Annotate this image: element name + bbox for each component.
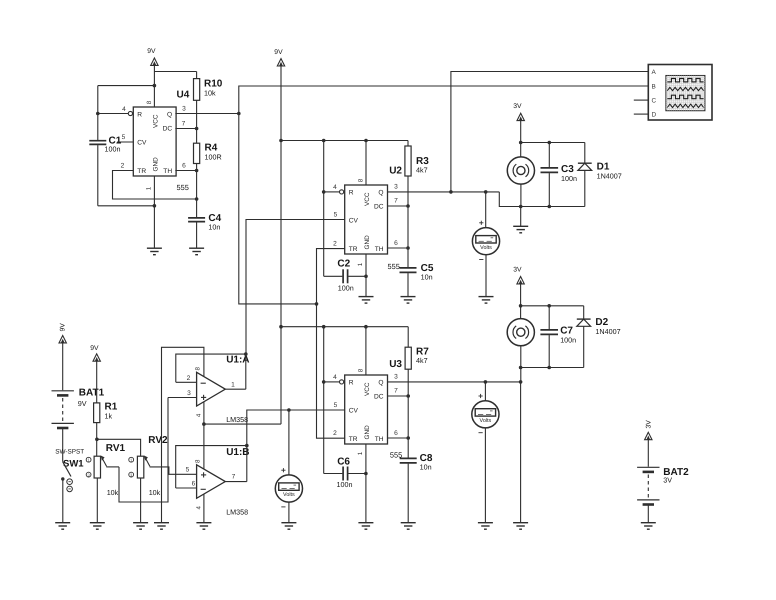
- node motor2 Q junction: [519, 380, 523, 384]
- svg-text:9V: 9V: [90, 345, 99, 352]
- ground voltmeter1: [479, 296, 494, 298]
- resistor R7: [405, 347, 411, 369]
- wire U1:B power pin8: [203, 424, 205, 469]
- svg-text:5: 5: [334, 402, 338, 409]
- wire U1:A pin2 input: [176, 381, 197, 383]
- svg-text:VCC: VCC: [364, 192, 371, 206]
- ground opamp A: [154, 522, 169, 524]
- diode D2 1N4007: [583, 306, 585, 319]
- svg-text:10n: 10n: [420, 463, 432, 472]
- svg-text:Volts: Volts: [283, 492, 295, 498]
- wire Q to motor1 rail: [499, 192, 585, 207]
- wire U4 CV stub: [117, 141, 133, 143]
- wire U2 TH pin6: [388, 247, 409, 249]
- svg-text:5: 5: [186, 467, 190, 474]
- svg-text:2: 2: [333, 241, 337, 248]
- svg-text:100n: 100n: [560, 336, 576, 345]
- svg-text:3V: 3V: [513, 267, 522, 274]
- svg-text:4k7: 4k7: [416, 166, 428, 175]
- svg-text:3: 3: [394, 184, 398, 191]
- svg-text:4k7: 4k7: [416, 356, 428, 365]
- svg-text:2: 2: [187, 375, 191, 382]
- svg-text:7: 7: [182, 121, 186, 128]
- svg-text:TH: TH: [375, 436, 384, 443]
- wire Q to scope B: [239, 86, 649, 114]
- wire to scope A: [451, 72, 648, 192]
- svg-text:4: 4: [333, 184, 337, 191]
- svg-text:1k: 1k: [105, 412, 113, 421]
- svg-text:1: 1: [357, 451, 364, 455]
- node opamp 9V junction: [202, 422, 206, 426]
- wire motor2 top rail: [521, 305, 584, 307]
- wire RV1 wiper to opamp A pin3: [119, 398, 168, 503]
- ground U4: [147, 247, 162, 249]
- wire scope input D stub: [634, 113, 649, 115]
- op U2 555 timer: [345, 185, 388, 254]
- svg-text:GND: GND: [153, 157, 160, 172]
- wire U4 TR loop: [113, 171, 197, 200]
- svg-text:6: 6: [394, 430, 398, 437]
- ground motor2: [513, 522, 528, 524]
- op-amp U1:B LM358: [197, 465, 226, 499]
- svg-text:4: 4: [122, 106, 126, 113]
- svg-text:TH: TH: [163, 168, 172, 175]
- wire motor2 to ground: [520, 382, 522, 523]
- svg-text:2: 2: [121, 163, 125, 170]
- wire U2 DC pin7: [388, 205, 409, 207]
- node R/VCC junction U4: [96, 112, 100, 116]
- capacitor C7: [548, 306, 550, 330]
- node motor1 bottom: [519, 205, 523, 209]
- battery BAT2: [637, 466, 659, 468]
- svg-text:GND: GND: [364, 235, 371, 250]
- wire U1:A power pin8 to ground: [162, 347, 204, 522]
- svg-text:2: 2: [333, 430, 337, 437]
- svg-text:RV2: RV2: [148, 435, 168, 446]
- node U1:B feedback junction: [245, 444, 249, 448]
- svg-text:8: 8: [358, 368, 365, 372]
- wire U1:A output pin1: [225, 388, 246, 390]
- svg-text:555: 555: [388, 262, 400, 271]
- scope trace C square wave: [667, 95, 703, 99]
- svg-text:RV1: RV1: [106, 443, 126, 454]
- wire U3 GND pin: [365, 444, 367, 523]
- svg-text:Volts: Volts: [480, 418, 492, 424]
- wire U2 GND pin: [365, 254, 367, 297]
- wire U2 output Q pin3: [388, 191, 500, 193]
- svg-text:8: 8: [358, 178, 365, 182]
- wire scope input C stub: [634, 99, 649, 101]
- wire U4 reset stub: [98, 113, 128, 115]
- svg-text:3V: 3V: [513, 103, 522, 110]
- ground C4: [189, 247, 204, 249]
- svg-text:TR: TR: [349, 436, 358, 443]
- svg-text:9V: 9V: [147, 48, 156, 55]
- svg-text:1: 1: [357, 262, 364, 266]
- svg-text:R: R: [349, 189, 354, 196]
- svg-text:TR: TR: [137, 168, 146, 175]
- wire U2 VCC pin: [365, 141, 367, 186]
- svg-text:8: 8: [146, 100, 153, 104]
- resistor R4: [194, 143, 200, 163]
- svg-text:LM358: LM358: [226, 415, 248, 424]
- node voltmeter2 branch: [484, 380, 488, 384]
- ground SW1: [55, 522, 70, 524]
- resistor R1: [94, 403, 100, 423]
- wire U2 CV pin5: [246, 220, 345, 355]
- node voltmeter3 branch: [287, 408, 291, 412]
- capacitor C1: [97, 114, 99, 141]
- wire U2 TR pin2: [317, 249, 345, 439]
- ground voltmeter3: [281, 522, 296, 524]
- svg-text:6: 6: [192, 481, 196, 488]
- wire 9V to opamp pin4: [204, 423, 281, 425]
- svg-text:4: 4: [333, 374, 337, 381]
- motor M1: [507, 157, 534, 184]
- ground U3: [358, 522, 373, 524]
- svg-text:1: 1: [231, 381, 235, 388]
- voltmeter VM3: [288, 410, 290, 475]
- battery BAT1: [52, 390, 74, 392]
- wire U4 DC pin7: [175, 128, 196, 130]
- svg-text:7: 7: [394, 388, 398, 395]
- svg-text:3: 3: [394, 374, 398, 381]
- wire motor1 top rail: [521, 142, 585, 144]
- svg-text:1: 1: [145, 186, 152, 190]
- svg-text:U2: U2: [389, 166, 402, 177]
- wire U3 output Q pin3: [388, 381, 521, 383]
- svg-text:8: 8: [195, 459, 202, 463]
- wire U4 GND pin: [153, 176, 155, 248]
- capacitor C4: [196, 199, 198, 217]
- svg-text:100n: 100n: [105, 145, 121, 154]
- svg-text:VCC: VCC: [364, 382, 371, 396]
- svg-text:100n: 100n: [338, 284, 354, 293]
- svg-text:6: 6: [394, 240, 398, 247]
- wire U4 output Q pin3: [175, 113, 239, 115]
- svg-text:4: 4: [196, 506, 203, 510]
- capacitor C8: [400, 457, 417, 459]
- svg-text:DC: DC: [374, 394, 384, 401]
- svg-text:U3: U3: [389, 359, 402, 370]
- svg-text:CV: CV: [349, 407, 359, 414]
- svg-text:10n: 10n: [208, 223, 220, 232]
- svg-text:Q: Q: [167, 111, 172, 118]
- capacitor C3: [548, 143, 550, 168]
- svg-text:7: 7: [394, 198, 398, 205]
- wire U1:A power pin4 to 9V: [203, 402, 205, 424]
- wire U1:A feedback: [176, 354, 246, 382]
- svg-text:SW-SPST: SW-SPST: [55, 449, 84, 456]
- node U4 Q junction: [237, 112, 241, 116]
- voltmeter VM1: [485, 192, 487, 228]
- svg-text:10k: 10k: [149, 488, 161, 497]
- scope trace B triangle wave: [667, 87, 703, 90]
- svg-text:GND: GND: [364, 425, 371, 440]
- svg-text:100R: 100R: [205, 153, 222, 162]
- svg-text:A: A: [652, 69, 657, 76]
- resistor R10: [194, 79, 200, 101]
- wire motor2 bottom rail: [521, 367, 584, 369]
- ground BAT2: [641, 522, 656, 524]
- svg-text:CV: CV: [349, 217, 359, 224]
- ground C8: [401, 522, 416, 524]
- svg-text:Volts: Volts: [480, 245, 492, 251]
- svg-text:100n: 100n: [337, 480, 353, 489]
- svg-text:1N4007: 1N4007: [597, 172, 622, 181]
- wire RV2 wiper to opamp B pin5: [150, 467, 197, 474]
- svg-text:U4: U4: [177, 90, 190, 101]
- node voltmeter1 branch: [484, 190, 488, 194]
- scope trace D triangle wave: [667, 104, 703, 107]
- ground opamp B: [196, 522, 211, 524]
- node motor2 top rail: [519, 304, 523, 308]
- svg-text:1N4007: 1N4007: [595, 327, 620, 336]
- svg-text:5: 5: [334, 212, 338, 219]
- op-amp U1:A LM358: [197, 372, 226, 406]
- wire U2 reset net: [323, 141, 325, 277]
- wire U1:B output pin7: [225, 481, 247, 483]
- svg-text:C6: C6: [337, 457, 350, 468]
- svg-text:100n: 100n: [561, 174, 577, 183]
- svg-text:3V: 3V: [645, 420, 652, 429]
- svg-text:D: D: [652, 112, 657, 119]
- svg-text:BAT1: BAT1: [79, 387, 105, 398]
- svg-text:8: 8: [195, 367, 202, 371]
- svg-text:DC: DC: [163, 126, 173, 133]
- wire U3 VCC pin: [365, 327, 367, 375]
- svg-text:9V: 9V: [78, 399, 87, 408]
- ground C5: [401, 296, 416, 298]
- svg-text:B: B: [652, 84, 656, 91]
- svg-text:3: 3: [182, 106, 186, 113]
- scope trace A square wave: [667, 78, 703, 82]
- svg-text:555: 555: [177, 183, 189, 192]
- node 9V-U2 rail junction: [279, 139, 283, 143]
- wire U2 VCC rail: [281, 140, 408, 142]
- capacitor C5: [400, 267, 417, 269]
- node scope A branch: [449, 190, 453, 194]
- wire to RV2 top: [97, 439, 141, 456]
- motor M2: [507, 319, 534, 346]
- svg-text:CV: CV: [137, 139, 147, 146]
- wire U3 DC pin7: [388, 395, 409, 397]
- svg-text:10k: 10k: [107, 488, 119, 497]
- svg-text:C2: C2: [337, 259, 350, 270]
- svg-text:VCC: VCC: [153, 114, 160, 128]
- svg-text:5: 5: [122, 134, 126, 141]
- wire U3 CV pin5: [247, 410, 345, 446]
- ground RV2: [133, 522, 148, 524]
- svg-text:10n: 10n: [421, 273, 433, 282]
- wire U1:B pin6 input: [176, 487, 197, 489]
- oscilloscope: [648, 65, 712, 121]
- wire U1:B feedback: [176, 446, 247, 488]
- svg-text:10k: 10k: [204, 89, 216, 98]
- op U3 555 timer: [345, 375, 388, 444]
- svg-text:3: 3: [187, 390, 191, 397]
- svg-text:3V: 3V: [663, 476, 672, 485]
- node R1/RV junction: [95, 438, 99, 442]
- svg-text:7: 7: [232, 474, 236, 481]
- svg-text:R: R: [349, 379, 354, 386]
- svg-text:TH: TH: [375, 246, 384, 253]
- svg-text:9V: 9V: [274, 49, 283, 56]
- svg-text:TR: TR: [349, 246, 358, 253]
- ground voltmeter2: [478, 522, 493, 524]
- svg-text:DC: DC: [374, 204, 384, 211]
- svg-text:LM358: LM358: [226, 508, 248, 517]
- diode D1 1N4007: [584, 143, 586, 164]
- capacitor C2: [324, 275, 343, 277]
- svg-text:9V: 9V: [60, 323, 67, 332]
- svg-text:4: 4: [196, 413, 203, 417]
- voltmeter VM2: [484, 382, 486, 401]
- ground RV1: [90, 522, 105, 524]
- wire U3 VCC rail: [281, 326, 408, 328]
- node motor2 bottom: [519, 366, 523, 370]
- wire Q down to trigger line: [239, 114, 317, 304]
- node 9V-U3 rail junction: [279, 325, 283, 329]
- svg-text:6: 6: [182, 163, 186, 170]
- node motor1 top rail: [519, 141, 523, 145]
- node TH/C4 junction: [195, 197, 199, 201]
- node U1:A feedback junction: [244, 352, 248, 356]
- wire U1:B power pin4 to ground: [203, 494, 205, 523]
- resistor R3: [405, 146, 411, 176]
- node trigger junction: [315, 302, 319, 306]
- wire U4 TH pin6: [175, 170, 196, 172]
- svg-text:U1:B: U1:B: [226, 447, 249, 458]
- wire U1:A pin3 input: [168, 397, 197, 399]
- capacitor C6: [324, 473, 343, 475]
- ground motor1: [520, 207, 522, 227]
- wire U3 reset net: [323, 327, 325, 474]
- wire U3 TH pin6: [388, 437, 409, 439]
- svg-text:Q: Q: [378, 379, 383, 386]
- svg-text:R: R: [137, 111, 142, 118]
- ground U2: [359, 296, 374, 298]
- svg-text:Q: Q: [378, 189, 383, 196]
- op U4 555 timer: [133, 107, 176, 176]
- svg-text:C: C: [652, 98, 657, 105]
